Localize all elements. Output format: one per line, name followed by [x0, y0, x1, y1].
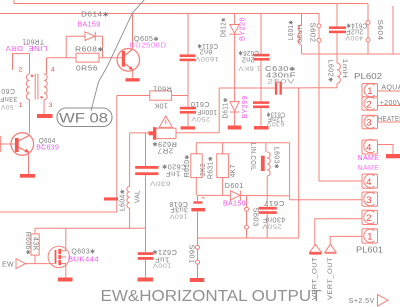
flag VERT_OUT 2 — [325, 244, 336, 252]
svg-text:C60: C60 — [1, 87, 15, 94]
transformer TR601 — [26, 74, 29, 100]
inductor L604 — [127, 187, 130, 209]
wire PL602 pin1 out — [378, 90, 400, 92]
svg-text:L603✱: L603✱ — [273, 147, 280, 169]
svg-text:100V: 100V — [152, 262, 171, 269]
wire D612 cathode down — [234, 34, 236, 88]
resistor R606 — [31, 234, 39, 255]
svg-text:400V: 400V — [345, 34, 363, 41]
svg-text:BUK444: BUK444 — [68, 257, 99, 264]
svg-text:1: 1 — [367, 86, 372, 97]
svg-text:1: 1 — [19, 102, 23, 109]
wire left edge stub — [0, 136, 2, 152]
svg-text:3: 3 — [366, 118, 371, 129]
svg-text:R610✱: R610✱ — [184, 154, 191, 177]
svg-text:TR601: TR601 — [22, 38, 44, 45]
capacitor C614 — [329, 26, 346, 29]
svg-text:HEATER: HEATER — [378, 116, 400, 123]
wire rail y=54 — [302, 53, 400, 55]
diode D612 — [230, 25, 240, 34]
wire C621 down — [145, 260, 147, 278]
wire C626 branch top — [260, 14, 262, 55]
terminal bar y=199 — [104, 197, 118, 200]
svg-text:BC639: BC639 — [36, 145, 59, 152]
svg-text:R601: R601 — [153, 84, 172, 91]
wire corner x=219.2 down — [218, 88, 220, 133]
svg-text:C617: C617 — [264, 199, 285, 206]
svg-text:1.6KV: 1.6KV — [238, 64, 261, 71]
wire D614 right drop — [102, 36, 104, 58]
svg-text:BY299: BY299 — [242, 96, 249, 119]
wire L603 bottom — [266, 176, 268, 196]
svg-text:S602: S602 — [309, 23, 316, 43]
wire L601 branch — [301, 14, 303, 26]
svg-text:250V: 250V — [262, 222, 282, 229]
svg-text:630V: 630V — [266, 120, 284, 127]
capacitor C620 — [135, 166, 158, 169]
svg-text:2: 2 — [366, 99, 371, 110]
wire C618 down — [197, 211, 199, 238]
wire right edge riser — [392, 6, 394, 54]
wire second rail y=13.5 — [0, 13, 319, 15]
wire C626 to C613 — [260, 61, 262, 102]
svg-text:BA159: BA159 — [78, 22, 101, 29]
svg-text:VAL: VAL — [135, 190, 142, 203]
wire C620 down — [145, 175, 147, 252]
wire D601 row right — [240, 194, 289, 197]
svg-text:NAME: NAME — [358, 165, 380, 172]
svg-text:4K7: 4K7 — [230, 164, 237, 177]
ground C610 — [181, 126, 195, 129]
capacitor C617 — [259, 207, 277, 210]
svg-text:10K: 10K — [154, 102, 168, 109]
svg-text:C621✱: C621✱ — [152, 248, 177, 255]
warning triangle — [159, 116, 172, 128]
svg-text:R608✱: R608✱ — [75, 47, 104, 54]
connector PL601 pin 4 — [362, 174, 378, 188]
svg-text:S603: S603 — [252, 208, 259, 227]
ground Q603 — [58, 278, 73, 282]
ground C621 — [138, 278, 154, 282]
wire to PL601 pin3 — [290, 199, 362, 201]
wire Q603 source — [65, 264, 67, 278]
svg-text:2n2: 2n2 — [242, 55, 255, 62]
wire Q603 drain — [65, 228, 67, 251]
inductor L601 — [298, 25, 301, 45]
wire y=238 — [198, 237, 299, 239]
wire C614 branch — [336, 4, 338, 28]
wire x=298.7 long riser — [298, 88, 300, 238]
svg-text:2: 2 — [366, 213, 371, 224]
diode D614 — [66, 35, 85, 37]
svg-text:1mH: 1mH — [341, 59, 348, 79]
svg-text:2: 2 — [19, 67, 23, 74]
transistor Q605 — [117, 49, 140, 72]
wire PL602 pin4 out — [378, 145, 394, 155]
svg-text:EW&HORIZONTAL OUTPUT: EW&HORIZONTAL OUTPUT — [101, 288, 323, 305]
svg-text:BA159: BA159 — [223, 201, 246, 208]
svg-text:1600V: 1600V — [195, 55, 219, 62]
wire Q605 emitter — [132, 70, 134, 79]
diode D611 — [230, 102, 239, 112]
connector PL602 pin 3 — [362, 115, 378, 128]
arrow S+2.5V — [378, 295, 389, 307]
svg-text:R629✱: R629✱ — [152, 140, 177, 147]
wire PL601 pin2 feed — [315, 219, 362, 245]
svg-text:6n2: 6n2 — [199, 48, 212, 55]
wire C611 branch top — [187, 14, 189, 56]
svg-text:3u3F: 3u3F — [170, 206, 188, 213]
svg-text:R606✱: R606✱ — [24, 232, 31, 255]
wire TR601 pin1 to Q604 — [29, 100, 31, 134]
wire L602 bottom to junction — [319, 83, 337, 87]
svg-text:C620✱: C620✱ — [162, 163, 187, 170]
wire rail y=88 right part — [282, 87, 319, 89]
waveform bubble WF 08 — [57, 108, 112, 127]
svg-text:S601: S601 — [188, 245, 195, 264]
wire PL602 pin2 out — [378, 105, 400, 107]
svg-text:2K2: 2K2 — [200, 163, 207, 176]
svg-text:2R7: 2R7 — [157, 147, 173, 154]
inductor L603 with core — [261, 156, 265, 171]
svg-text:LINE_DRV: LINE_DRV — [5, 44, 47, 51]
svg-text:VERT_OUT: VERT_OUT — [327, 257, 334, 300]
ground Q605 — [126, 78, 140, 81]
arrow EW input — [16, 259, 25, 269]
svg-text:100nF: 100nF — [197, 108, 217, 115]
wire PL601 pin1 feed — [330, 236, 362, 244]
wire PL602 riser x=319 — [318, 54, 320, 181]
capacitor C613 — [253, 101, 269, 104]
link S603 — [246, 196, 248, 208]
svg-text:65uH: 65uH — [297, 24, 304, 43]
svg-text:WF 08: WF 08 — [59, 111, 108, 126]
capacitor C626 — [254, 54, 270, 57]
wire y=228.3 — [35, 227, 146, 229]
svg-text:1: 1 — [367, 232, 372, 243]
svg-text:LIN.COIL: LIN.COIL — [249, 143, 256, 171]
svg-text:D601: D601 — [225, 183, 244, 190]
wire top rail y=3.5 — [14, 0, 368, 4]
wire R610 bottom — [195, 178, 197, 196]
capacitor C621 — [138, 252, 154, 255]
wire corner x=289.6 — [289, 143, 291, 200]
resistor R608 — [47, 57, 77, 59]
ground Q604 drop — [28, 151, 30, 174]
svg-text:D612✱: D612✱ — [221, 17, 228, 37]
ground PL602 pin4 — [386, 154, 400, 158]
connector PL602 pin 4 — [362, 140, 378, 154]
connector PL602 pin 2 — [362, 97, 378, 110]
wire D612 branch top — [234, 14, 236, 25]
wire L603 top stub — [265, 143, 267, 152]
resistor R601 — [117, 95, 150, 97]
wire C620 branch — [145, 133, 147, 166]
wire to PL601 pin4 — [319, 180, 362, 182]
svg-text:EW: EW — [2, 261, 14, 268]
ground D611 — [228, 126, 241, 130]
svg-text:4: 4 — [366, 177, 371, 188]
svg-text:50V: 50V — [0, 103, 13, 110]
svg-text:NAME: NAME — [358, 155, 380, 162]
wire rail y=88 left part — [219, 87, 275, 89]
link S604 — [367, 4, 369, 21]
wire L604 feed — [129, 133, 131, 187]
svg-text:L602✱: L602✱ — [327, 60, 334, 83]
svg-text:160V: 160V — [169, 212, 187, 219]
svg-text:1uF: 1uF — [154, 255, 169, 262]
diode D601 — [230, 191, 240, 200]
wire D601 row left — [198, 194, 231, 196]
svg-text:PL602: PL602 — [354, 72, 383, 81]
svg-text:250V: 250V — [267, 78, 296, 85]
wire resistor-bank rail y=142.8 — [196, 142, 289, 144]
svg-text:D614✱: D614✱ — [81, 12, 109, 19]
connector PL601 pin 3 — [362, 192, 378, 206]
wire x=116.8 riser — [116, 96, 118, 213]
svg-text:L604✱: L604✱ — [120, 189, 127, 211]
svg-text:43K: 43K — [32, 237, 39, 251]
svg-text:AQUAD: AQUAD — [381, 84, 400, 91]
resistor R629 — [130, 132, 154, 134]
connector PL602 pin 1 — [362, 84, 378, 97]
svg-text:3: 3 — [49, 102, 53, 109]
svg-text:C626✱: C626✱ — [238, 49, 259, 56]
wire PL602 pin3 out — [378, 121, 400, 123]
wire TR601 pin2 top — [13, 54, 30, 74]
svg-text:1nF: 1nF — [165, 169, 180, 176]
svg-text:D611✱: D611✱ — [222, 98, 229, 119]
svg-text:4: 4 — [366, 142, 371, 153]
svg-text:2u2F: 2u2F — [346, 27, 363, 34]
inductor L602 — [336, 54, 338, 63]
link S601 — [197, 238, 199, 245]
svg-text:0R56: 0R56 — [76, 66, 98, 73]
svg-text:630V: 630V — [149, 180, 170, 187]
wire TR601 pin3 stub — [43, 100, 45, 114]
capacitor C610 — [180, 107, 196, 110]
svg-text:BU2508D: BU2508D — [130, 43, 167, 50]
capacitor C618 (polarized) — [197, 195, 199, 201]
wire R610 top stub — [195, 143, 197, 154]
svg-text:BY228: BY228 — [240, 17, 247, 41]
resistor R610 — [191, 154, 202, 178]
waveform callout pointer — [91, 0, 145, 111]
flag VERT_OUT 1 — [310, 244, 322, 252]
svg-text:PL601: PL601 — [356, 245, 384, 254]
wire R631 bottom — [222, 178, 224, 196]
capacitor C611 — [180, 54, 196, 57]
ground C613 — [254, 126, 269, 130]
wire C617 branch — [266, 196, 268, 207]
svg-text:33nF: 33nF — [0, 95, 17, 102]
svg-text:250V: 250V — [191, 115, 210, 122]
capacitor C630 — [275, 82, 277, 95]
wire D614 left drop — [65, 36, 67, 58]
resistor R631 — [217, 154, 229, 178]
transistor Q603 (MOSFET) — [48, 246, 69, 267]
connector PL601 pin 1 — [362, 229, 378, 243]
wire R631 top stub — [222, 143, 224, 154]
svg-text:Q603✱: Q603✱ — [71, 248, 95, 255]
wire Q604 base — [0, 143, 15, 145]
wire L604 bottom — [129, 208, 131, 228]
wire L601 bottom — [301, 45, 303, 54]
ground S601 — [190, 278, 205, 282]
svg-text:430nF: 430nF — [263, 216, 286, 223]
terminal bar TR601 pin3 — [37, 114, 53, 118]
wire R629 to corner — [176, 132, 219, 134]
wire TR601 pin4 riser — [46, 58, 48, 74]
svg-text:S+2.5V: S+2.5V — [349, 298, 375, 305]
svg-text:3: 3 — [366, 195, 371, 206]
link S602 — [318, 14, 320, 24]
connector PL601 pin 2 — [362, 210, 378, 224]
svg-text:+200V: +200V — [380, 100, 400, 107]
wire R606 top stub — [34, 228, 36, 234]
wire C613 to ground — [260, 108, 262, 126]
svg-text:R631✱: R631✱ — [208, 156, 215, 179]
svg-text:L601✱: L601✱ — [288, 20, 295, 40]
svg-text:4: 4 — [51, 67, 55, 74]
transistor Q604 — [11, 133, 34, 156]
node Q605 collector riser — [132, 14, 134, 49]
wire C610 branch — [187, 61, 189, 107]
svg-text:S604: S604 — [376, 20, 383, 41]
svg-text:C610: C610 — [191, 100, 210, 107]
wire rail y=212 — [0, 211, 117, 213]
